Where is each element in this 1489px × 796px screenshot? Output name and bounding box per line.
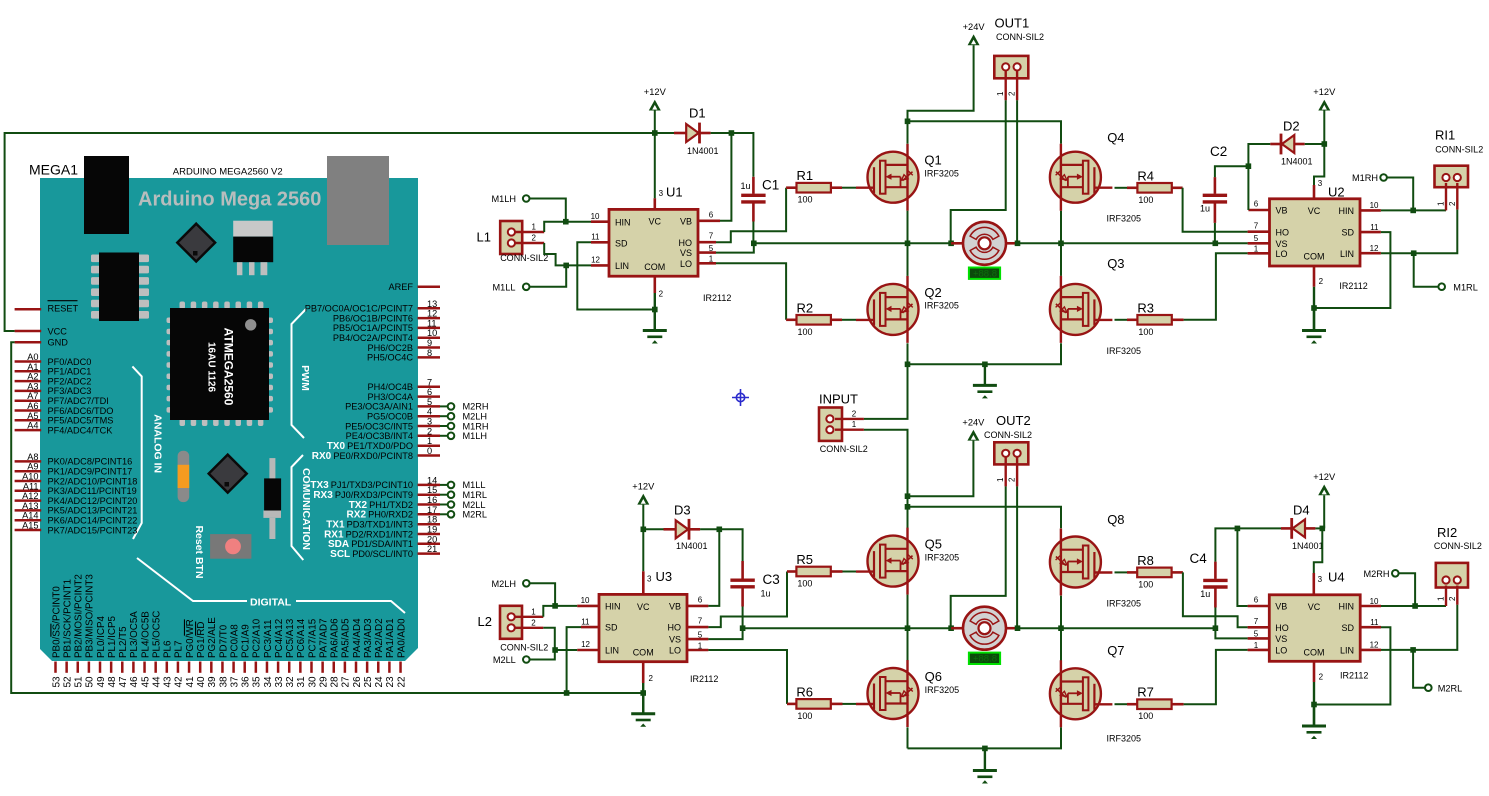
wire HO to R5 <box>708 572 787 628</box>
svg-text:6: 6 <box>1254 200 1259 209</box>
wire to node M2RH <box>440 405 448 407</box>
wire LO to R6 <box>708 650 787 704</box>
wire motor2 right to bridge <box>1018 627 1216 629</box>
svg-text:22: 22 <box>396 676 407 688</box>
connector INPUT CONN-SIL2 <box>819 408 842 441</box>
svg-text:VS: VS <box>669 635 681 645</box>
node M2LH <box>448 413 455 420</box>
connector OUT2 CONN-SIL2 <box>994 442 1028 464</box>
wire SD to ground net U3 <box>567 627 581 693</box>
svg-text:20: 20 <box>427 534 437 544</box>
svg-text:Q6: Q6 <box>925 669 942 684</box>
wire VS to bus <box>716 243 754 252</box>
svg-text:34: 34 <box>263 676 274 688</box>
pin 38 PD7/T0 <box>221 662 224 673</box>
pin 12 PB6/OC1B/PCINT6 <box>418 317 441 320</box>
svg-text:+24V: +24V <box>963 22 986 32</box>
pin 35 PC2/A10 <box>255 662 258 673</box>
svg-text:PA2/AD2: PA2/AD2 <box>374 618 385 658</box>
svg-text:100: 100 <box>798 327 813 337</box>
pin 44 PL5/OC5C <box>154 662 157 673</box>
svg-text:L2: L2 <box>478 614 492 629</box>
svg-text:PA4/AD4: PA4/AD4 <box>352 618 363 658</box>
wire to node M1LL <box>440 484 448 486</box>
svg-text:28: 28 <box>330 676 341 688</box>
wire Q1 source to Q2 drain <box>907 211 909 276</box>
svg-text:PL2/T5: PL2/T5 <box>118 626 129 658</box>
wire Q5 source to Q6 drain <box>907 595 909 661</box>
svg-text:7: 7 <box>698 617 703 626</box>
svg-text:11: 11 <box>427 318 437 328</box>
svg-text:1: 1 <box>698 641 703 650</box>
svg-text:PE4/OC3B/INT4: PE4/OC3B/INT4 <box>346 431 413 441</box>
svg-text:3: 3 <box>1318 179 1323 188</box>
svg-text:PF5/ADC5/TMS: PF5/ADC5/TMS <box>48 416 114 426</box>
svg-text:R6: R6 <box>796 684 813 699</box>
svg-text:35: 35 <box>252 676 263 688</box>
svg-text:M1LH: M1LH <box>463 431 488 441</box>
svg-text:A11: A11 <box>23 481 39 491</box>
svg-text:3: 3 <box>1318 575 1323 584</box>
svg-text:5: 5 <box>427 397 432 407</box>
svg-text:PG0/WR: PG0/WR <box>185 619 196 658</box>
transistor Q1 IRF3205 <box>856 144 919 211</box>
svg-text:PC2/A10: PC2/A10 <box>252 618 263 658</box>
connector RI1 CONN-SIL2 <box>1435 166 1469 188</box>
junction switch node left 2 <box>905 625 911 631</box>
svg-text:COM: COM <box>1304 647 1325 657</box>
svg-text:2: 2 <box>1319 277 1324 286</box>
wire RI2 pin2 to LIN <box>1381 605 1457 650</box>
svg-text:12: 12 <box>581 640 590 649</box>
pin 42 PL7 <box>177 662 180 673</box>
pin 28 PA6/AD6 <box>333 662 336 673</box>
svg-text:Q3: Q3 <box>1107 256 1124 271</box>
svg-text:Q1: Q1 <box>924 153 941 168</box>
junction motor2 right <box>1015 625 1021 631</box>
junction VB net U3 <box>717 527 723 533</box>
svg-text:CONN-SIL2: CONN-SIL2 <box>820 444 868 454</box>
wire VB net to D4 cathode <box>1237 527 1281 529</box>
wire C4 top to VB net U4 <box>1215 528 1237 561</box>
power +24V OUT1 <box>968 34 980 45</box>
pin 7 HO U4 <box>1248 626 1270 629</box>
svg-text:M2RL: M2RL <box>1438 683 1463 693</box>
pin 10 HIN U1 <box>591 220 609 223</box>
wire to D1 anode <box>655 132 674 134</box>
pin GND <box>15 341 42 344</box>
pin 2 RI1 <box>1456 183 1458 210</box>
wire +24V top bus <box>908 121 1062 143</box>
pin PK5/ADC13/PCINT21 <box>15 509 42 512</box>
pin 10 HIN U3 <box>577 605 599 608</box>
node M1LH <box>523 195 530 202</box>
svg-text:5: 5 <box>1254 630 1259 639</box>
pin 12 LIN U2 <box>1360 252 1381 255</box>
pin 3 VC U2 <box>1313 185 1316 199</box>
svg-text:1: 1 <box>532 223 537 232</box>
pin 27 PA5/AD5 <box>344 662 347 673</box>
svg-text:ARDUINO MEGA2560 V2: ARDUINO MEGA2560 V2 <box>173 167 283 178</box>
crystal diamond 2 <box>209 455 247 493</box>
pin 22 PA0/AD0 <box>399 662 402 673</box>
wire M2LH to HIN U3 <box>530 583 578 606</box>
svg-text:ANALOG IN: ANALOG IN <box>152 414 164 473</box>
svg-text:RX0: RX0 <box>312 451 332 462</box>
pin 7 PH4/OC4B <box>418 386 441 389</box>
wire to node M2LL <box>440 504 448 506</box>
wire +24V to bus <box>908 45 974 121</box>
wire VB vertical U1 <box>720 133 731 221</box>
svg-text:29: 29 <box>318 676 329 688</box>
wire C2 bottom to VS bus <box>1214 223 1216 243</box>
junction motor1 left <box>948 241 954 247</box>
pin PK0/ADC8/PCINT16 <box>15 460 42 463</box>
node M1RH <box>448 423 455 430</box>
svg-text:PF2/ADC2: PF2/ADC2 <box>48 376 92 386</box>
svg-text:1: 1 <box>1254 641 1259 650</box>
svg-text:IRF3205: IRF3205 <box>924 301 959 311</box>
svg-text:PL4/OC5B: PL4/OC5B <box>140 611 151 658</box>
svg-text:SD: SD <box>605 623 618 633</box>
svg-text:49: 49 <box>96 676 107 688</box>
svg-text:C2: C2 <box>1210 144 1227 159</box>
svg-text:2: 2 <box>1008 91 1017 96</box>
svg-text:1N4001: 1N4001 <box>676 541 708 551</box>
junction VS U1 <box>751 241 757 247</box>
pin 6 VB U3 <box>687 605 708 608</box>
pin VCC <box>15 330 42 333</box>
svg-text:OUT1: OUT1 <box>995 16 1030 31</box>
svg-text:PB3/MISO/PCINT3: PB3/MISO/PCINT3 <box>85 574 96 658</box>
svg-text:50: 50 <box>85 676 96 688</box>
svg-text:HIN: HIN <box>605 602 621 612</box>
svg-text:U2: U2 <box>1328 185 1345 200</box>
svg-text:42: 42 <box>174 676 185 688</box>
svg-text:VB: VB <box>669 602 681 612</box>
pin 31 PC6/A14 <box>299 662 302 673</box>
wire R5 to Q5 gate <box>843 571 857 573</box>
svg-text:IRF3205: IRF3205 <box>1107 214 1142 224</box>
svg-text:M2LH: M2LH <box>491 579 516 589</box>
svg-text:3: 3 <box>659 189 664 198</box>
svg-text:M1RL: M1RL <box>463 490 488 500</box>
svg-text:PA6/AD6: PA6/AD6 <box>330 618 341 658</box>
wire RI1 pin2 to LIN <box>1381 210 1457 254</box>
pin 1 LO U3 <box>687 649 708 652</box>
svg-text:7: 7 <box>1254 617 1259 626</box>
svg-text:PK0/ADC8/PCINT16: PK0/ADC8/PCINT16 <box>48 457 133 467</box>
svg-text:HO: HO <box>1276 227 1290 237</box>
wire +24V 2 to net <box>908 441 974 497</box>
svg-text:PD1/SDA/INT1: PD1/SDA/INT1 <box>351 539 413 549</box>
svg-text:M2LH: M2LH <box>463 412 488 422</box>
svg-text:PB7/OC0A/OC1C/PCINT7: PB7/OC0A/OC1C/PCINT7 <box>305 304 413 314</box>
svg-text:53: 53 <box>51 676 62 688</box>
svg-text:PK3/ADC11/PCINT19: PK3/ADC11/PCINT19 <box>48 486 137 496</box>
bracket ANALOG IN <box>132 366 141 539</box>
pin 6 VB U4 <box>1248 605 1270 608</box>
svg-text:41: 41 <box>185 676 196 688</box>
svg-text:11: 11 <box>591 233 600 242</box>
svg-text:A12: A12 <box>22 491 38 501</box>
svg-text:A2: A2 <box>27 372 38 382</box>
junction motor2 left <box>948 625 954 631</box>
wire R8 to U4 HO <box>1183 572 1248 627</box>
svg-text:7: 7 <box>427 377 432 387</box>
svg-text:1N4001: 1N4001 <box>1281 157 1313 167</box>
svg-text:48: 48 <box>107 676 118 688</box>
wire motor right to right bridge <box>1018 242 1216 244</box>
svg-text:11: 11 <box>581 617 590 626</box>
wire M2RH to HIN U4 <box>1399 573 1416 606</box>
svg-text:1u: 1u <box>1200 589 1210 599</box>
svg-text:11: 11 <box>1370 618 1379 627</box>
wire VS bus 2 to motor <box>743 627 952 629</box>
svg-text:17: 17 <box>427 505 437 515</box>
pin 21 PD0/SCL/INT0 <box>418 552 441 555</box>
pin PF5/ADC5/TMS <box>15 419 42 422</box>
svg-text:16: 16 <box>427 495 437 505</box>
pin 1 RI2 <box>1445 586 1447 607</box>
wire VB vertical U3 <box>708 529 719 606</box>
wire VB vertical U4 <box>1237 528 1247 606</box>
node M1LL <box>523 284 530 291</box>
bracket PWM <box>292 309 307 438</box>
wire D2 anode to +12V <box>1305 143 1325 145</box>
svg-text:A6: A6 <box>27 401 38 411</box>
svg-text:PB1/SCK/PCINT1: PB1/SCK/PCINT1 <box>62 579 73 658</box>
wire M1RH to HIN <box>1387 178 1413 211</box>
junction HIN U2 <box>1410 208 1416 214</box>
svg-text:RI1: RI1 <box>1435 128 1455 143</box>
pin 50 PB3/MISO/PCINT3 <box>88 662 91 673</box>
transistor Q4 IRF3205 <box>1050 144 1113 211</box>
svg-text:PA1/AD1: PA1/AD1 <box>385 618 396 658</box>
svg-text:100: 100 <box>1138 327 1153 337</box>
svg-text:1u: 1u <box>741 181 751 191</box>
pin 2 COM U2 <box>1313 266 1316 287</box>
svg-text:3: 3 <box>427 417 432 427</box>
svg-text:IR2112: IR2112 <box>1340 671 1368 681</box>
svg-text:5: 5 <box>698 630 703 639</box>
svg-text:IRF3205: IRF3205 <box>925 685 960 695</box>
svg-text:PH3/OC4A: PH3/OC4A <box>368 392 414 402</box>
svg-text:1: 1 <box>1437 201 1446 206</box>
pin 26 PA4/AD4 <box>355 662 358 673</box>
svg-text:2: 2 <box>531 618 536 627</box>
svg-text:M1LH: M1LH <box>491 194 516 204</box>
wire VB net to C3 <box>719 529 742 561</box>
wire L1 pin2 to LIN <box>544 243 591 265</box>
USB connector block <box>84 156 129 234</box>
wire COM to ground U4 <box>1313 682 1315 726</box>
connector RI2 CONN-SIL2 <box>1436 563 1468 588</box>
wire +12V to U4 VC <box>1314 528 1323 573</box>
svg-text:PE5/OC3C/INT5: PE5/OC3C/INT5 <box>345 421 413 431</box>
ground bridge 1 <box>984 364 986 385</box>
svg-text:LO: LO <box>680 259 692 269</box>
resistor R1 <box>786 186 796 189</box>
svg-text:1: 1 <box>996 91 1005 96</box>
svg-text:LO: LO <box>1275 646 1287 656</box>
svg-text:VS: VS <box>680 248 692 258</box>
svg-text:4: 4 <box>427 407 432 417</box>
svg-text:A10: A10 <box>22 472 38 482</box>
svg-text:HIN: HIN <box>1339 602 1355 612</box>
connector OUT1 CONN-SIL2 <box>994 56 1028 78</box>
ground U1 <box>654 310 656 331</box>
svg-text:HO: HO <box>1275 623 1289 633</box>
svg-text:7: 7 <box>1254 221 1259 230</box>
junction HIN U4 <box>1412 603 1418 609</box>
svg-text:2: 2 <box>1448 201 1457 206</box>
svg-text:PD7/T0: PD7/T0 <box>218 624 229 658</box>
pin PF6/ADC6/TDO <box>15 409 42 412</box>
diode D1 <box>674 132 686 135</box>
svg-text:2: 2 <box>1008 477 1017 482</box>
junction COM U1 <box>652 307 658 313</box>
svg-text:PH1/TXD2: PH1/TXD2 <box>369 500 413 510</box>
wire SD to ground net U1 <box>577 242 655 309</box>
pin 7 HO U3 <box>687 626 708 629</box>
svg-text:PH4/OC4B: PH4/OC4B <box>368 382 413 392</box>
wire INPUT pin1 to +24V net <box>864 430 908 528</box>
svg-text:L1: L1 <box>477 230 491 245</box>
wire HIN U2 to RI1 pin1 <box>1381 209 1446 211</box>
pin 2 RI2 <box>1456 586 1458 605</box>
svg-text:9: 9 <box>427 338 432 348</box>
ground U4 <box>1313 705 1315 727</box>
svg-text:PF1/ADC1: PF1/ADC1 <box>48 367 92 377</box>
crystal diamond 1 <box>177 224 215 262</box>
svg-text:12: 12 <box>1370 244 1379 253</box>
transistor Q5 IRF3205 <box>856 528 919 595</box>
svg-text:100: 100 <box>1138 579 1153 589</box>
pin 3 PE5/OC3C/INT5 <box>418 425 441 428</box>
wire C3 bottom to VS junction <box>742 607 744 629</box>
svg-text:C4: C4 <box>1190 551 1208 566</box>
junction VB net U4 <box>1235 526 1241 532</box>
svg-text:SD: SD <box>1341 228 1354 238</box>
svg-text:PH6/OC2B: PH6/OC2B <box>368 343 413 353</box>
wire OUT2 pin2 to motor right <box>1016 486 1018 628</box>
wire COM to ground U3 <box>642 683 644 714</box>
wire INPUT pin2 to ground net <box>864 364 908 419</box>
svg-text:PC6/A14: PC6/A14 <box>296 618 307 658</box>
pin 9 PH6/OC2B <box>418 346 441 349</box>
pin 33 PC4/A12 <box>277 662 280 673</box>
svg-text:10: 10 <box>581 596 590 605</box>
pin 1 LO U4 <box>1248 649 1270 652</box>
svg-text:1: 1 <box>996 477 1005 482</box>
svg-text:+88.8: +88.8 <box>973 654 997 665</box>
wire COM to ground U1 <box>654 293 656 331</box>
svg-text:PB2/MOSI/PCINT2: PB2/MOSI/PCINT2 <box>74 574 85 658</box>
pin PK6/ADC14/PCINT22 <box>15 519 42 522</box>
svg-text:A15: A15 <box>22 521 38 531</box>
svg-text:7: 7 <box>709 232 714 241</box>
junction LIN U2 <box>1411 250 1417 256</box>
svg-text:PF4/ADC4/TCK: PF4/ADC4/TCK <box>48 425 114 435</box>
svg-text:IR2112: IR2112 <box>1339 281 1367 291</box>
capacitor C2 <box>1214 177 1217 194</box>
wire +12V to U2 VC <box>1314 144 1324 185</box>
svg-text:M2RL: M2RL <box>463 510 488 520</box>
voltage regulator <box>233 221 273 276</box>
svg-text:10: 10 <box>427 328 437 338</box>
pin 3 VC U4 <box>1313 573 1316 595</box>
svg-text:PB4/OC2A/PCINT4: PB4/OC2A/PCINT4 <box>333 333 413 343</box>
motor 1 <box>963 222 1006 265</box>
node M1LH <box>448 433 455 440</box>
svg-text:44: 44 <box>151 676 162 688</box>
pin 2 COM U4 <box>1313 661 1316 682</box>
wire L1 pin1 to HIN <box>544 222 566 232</box>
node M2LH <box>523 580 530 587</box>
svg-text:SCL: SCL <box>330 549 350 560</box>
SOIC driver chip <box>91 253 149 322</box>
svg-text:40: 40 <box>196 676 207 688</box>
pin 10 HIN U4 <box>1360 605 1381 608</box>
junction +12V U2 <box>1322 141 1328 147</box>
IC U1 IR2112 <box>609 209 698 276</box>
ground U2 <box>1313 308 1315 331</box>
IC U2 IR2112 <box>1270 199 1361 266</box>
svg-text:2: 2 <box>1448 596 1457 601</box>
svg-text:PF7/ADC7/TDI: PF7/ADC7/TDI <box>48 396 109 406</box>
node M1RL <box>448 491 455 498</box>
svg-text:39: 39 <box>207 676 218 688</box>
wire Q3 gate to R3 <box>1115 319 1128 321</box>
svg-text:VC: VC <box>1308 602 1321 612</box>
svg-text:R1: R1 <box>797 168 814 183</box>
wire C2 top to VB net U2 <box>1215 166 1249 177</box>
diode D2 <box>1270 143 1280 146</box>
svg-text:A8: A8 <box>27 452 38 462</box>
svg-text:PC4/A12: PC4/A12 <box>274 619 285 658</box>
svg-text:12: 12 <box>427 309 437 319</box>
pin 0 PE0/RXD0/PCINT8 <box>418 454 441 457</box>
svg-text:1N4001: 1N4001 <box>687 146 719 156</box>
pin 3 VC U1 <box>653 198 656 209</box>
bracket DIGITAL <box>137 558 247 601</box>
pin AREF AREF <box>418 286 441 289</box>
svg-text:ATMEGA2560: ATMEGA2560 <box>222 328 236 406</box>
pin 2 COM U1 <box>653 276 656 293</box>
svg-text:PE0/RXD0/PCINT8: PE0/RXD0/PCINT8 <box>333 451 413 461</box>
svg-text:VC: VC <box>637 602 650 612</box>
pin 24 PA2/AD2 <box>377 662 380 673</box>
svg-text:21: 21 <box>427 544 437 554</box>
pin 1 RI1 <box>1445 183 1447 210</box>
svg-text:2: 2 <box>427 426 432 436</box>
svg-text:2: 2 <box>659 290 664 299</box>
svg-text:100: 100 <box>1138 711 1153 721</box>
svg-text:PC0/A8: PC0/A8 <box>229 624 240 658</box>
wire LIN to M2RL <box>1413 650 1425 688</box>
pin 5 PE3/OC3A/AIN1 <box>418 405 441 408</box>
transistor Q7 IRF3205 <box>1050 660 1113 727</box>
diode D3 <box>664 528 676 531</box>
svg-text:CONN-SIL2: CONN-SIL2 <box>500 642 548 652</box>
wire D3 cathode to VB net <box>700 528 719 530</box>
capacitor C4 <box>1214 562 1217 579</box>
svg-text:M1LL: M1LL <box>493 283 516 293</box>
motor 2 terminal left <box>951 627 963 630</box>
svg-text:DIGITAL: DIGITAL <box>250 597 292 609</box>
wire INPUT pin2 to ground bus <box>907 364 909 419</box>
